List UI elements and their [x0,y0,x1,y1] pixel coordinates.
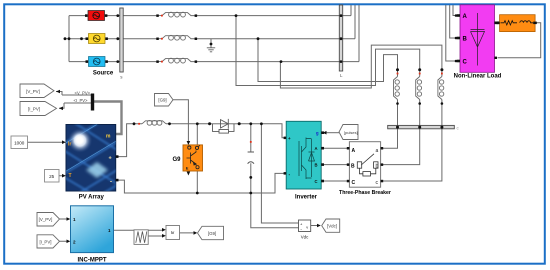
svg-text:m: m [106,134,111,140]
svg-text:<I_PV>: <I_PV> [74,98,89,103]
svg-text:[V_PV]: [V_PV] [39,217,53,222]
svg-text:Inverter: Inverter [295,195,318,201]
svg-text:v: v [306,226,308,230]
svg-text:Non-Linear Load: Non-Linear Load [454,74,502,80]
svg-text:a: a [376,148,379,154]
svg-text:Source: Source [93,71,114,77]
svg-text:G9: G9 [172,157,181,163]
svg-text:2: 2 [73,239,76,244]
svg-text:[Vdc]: [Vdc] [327,223,337,228]
svg-text:+: + [288,136,291,141]
svg-text:25: 25 [49,174,55,179]
svg-text:B: B [315,162,318,167]
svg-text:C: C [315,179,318,184]
svg-text:[G9]: [G9] [208,231,216,236]
svg-text:[pulses]: [pulses] [344,130,358,135]
svg-text:[I_PV]: [I_PV] [28,107,40,112]
svg-text:A: A [315,146,318,151]
svg-text:T: T [69,173,72,179]
svg-text:PV Array: PV Array [79,195,105,201]
svg-text:1: 1 [73,217,76,222]
svg-text:Three-Phase Breaker: Three-Phase Breaker [339,190,391,196]
svg-text:A: A [463,14,468,20]
svg-text:+: + [109,156,112,162]
svg-text:1: 1 [108,228,111,233]
svg-text:INC-MPPT: INC-MPPT [78,258,107,264]
svg-text:[I_PV]: [I_PV] [40,239,52,244]
svg-text:<V_PV>: <V_PV> [75,90,91,95]
svg-text:Ir: Ir [68,142,71,148]
svg-text:[V_PV]: [V_PV] [26,89,40,94]
svg-text:[G9]: [G9] [158,98,166,103]
svg-text:-: - [110,180,112,186]
svg-text:A: A [352,148,356,154]
svg-text:B: B [463,37,468,43]
svg-text:≥: ≥ [169,231,175,234]
svg-text:C: C [352,180,356,186]
svg-text:g: g [316,131,319,136]
svg-text:1000: 1000 [14,141,25,146]
svg-text:B: B [351,164,355,170]
svg-text:E: E [186,166,189,171]
svg-text:C: C [463,60,468,66]
svg-text:Vdc: Vdc [301,235,309,240]
